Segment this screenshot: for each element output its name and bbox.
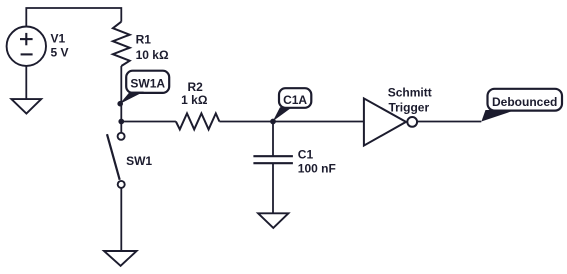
label SW1 (126, 154, 152, 168)
ground (below C1) (258, 213, 288, 228)
label R2 1 kOhm (181, 80, 208, 107)
label R1 10 kOhm (136, 33, 169, 63)
ground (below V1) (11, 99, 41, 113)
svg-text:Schmitt: Schmitt (388, 86, 432, 100)
wire junction to R2 (121, 121, 176, 123)
svg-text:10 kΩ: 10 kΩ (136, 48, 169, 62)
label C1 100 nF (298, 148, 336, 176)
capacitor C1 (253, 156, 293, 163)
wire SW1 to ground (120, 188, 122, 251)
svg-text:SW1: SW1 (126, 154, 152, 168)
resistor R2 (176, 113, 220, 129)
svg-text:C1: C1 (298, 148, 314, 162)
wire V1 to ground (25, 66, 27, 99)
svg-text:V1: V1 (51, 32, 66, 46)
wire junction to SW1 (120, 122, 122, 134)
svg-text:Debounced: Debounced (492, 95, 557, 109)
resistor R1 (113, 22, 130, 66)
wire R1 to junction (120, 66, 122, 122)
Schmitt trigger U1 (364, 98, 417, 145)
svg-text:R2: R2 (188, 80, 204, 94)
wire top: V1 to R1 (26, 8, 121, 27)
node junction C1 branch (270, 119, 276, 125)
svg-text:Trigger: Trigger (388, 101, 429, 115)
switch SW1 (107, 133, 125, 188)
svg-text:SW1A: SW1A (130, 76, 165, 90)
wire R2 to node C1 (219, 121, 273, 123)
wire Schmitt output (418, 121, 482, 123)
svg-text:5 V: 5 V (51, 46, 69, 60)
callout SW1A (117, 71, 169, 107)
label Schmitt Trigger (388, 86, 432, 115)
svg-text:100 nF: 100 nF (298, 162, 336, 176)
svg-text:R1: R1 (136, 33, 152, 47)
wire node to C1 (272, 122, 274, 157)
label V1 5 V (51, 32, 69, 60)
svg-text:1 kΩ: 1 kΩ (181, 93, 208, 107)
wire C1 to ground (272, 163, 274, 213)
node junction (R1 / wire / SW1) (118, 119, 124, 125)
voltage source V1 (7, 27, 46, 66)
callout Debounced (481, 89, 562, 122)
ground (below SW1) (104, 251, 137, 266)
svg-text:C1A: C1A (283, 93, 307, 107)
wire node to Schmitt trigger (273, 121, 364, 123)
callout C1A (273, 88, 312, 121)
